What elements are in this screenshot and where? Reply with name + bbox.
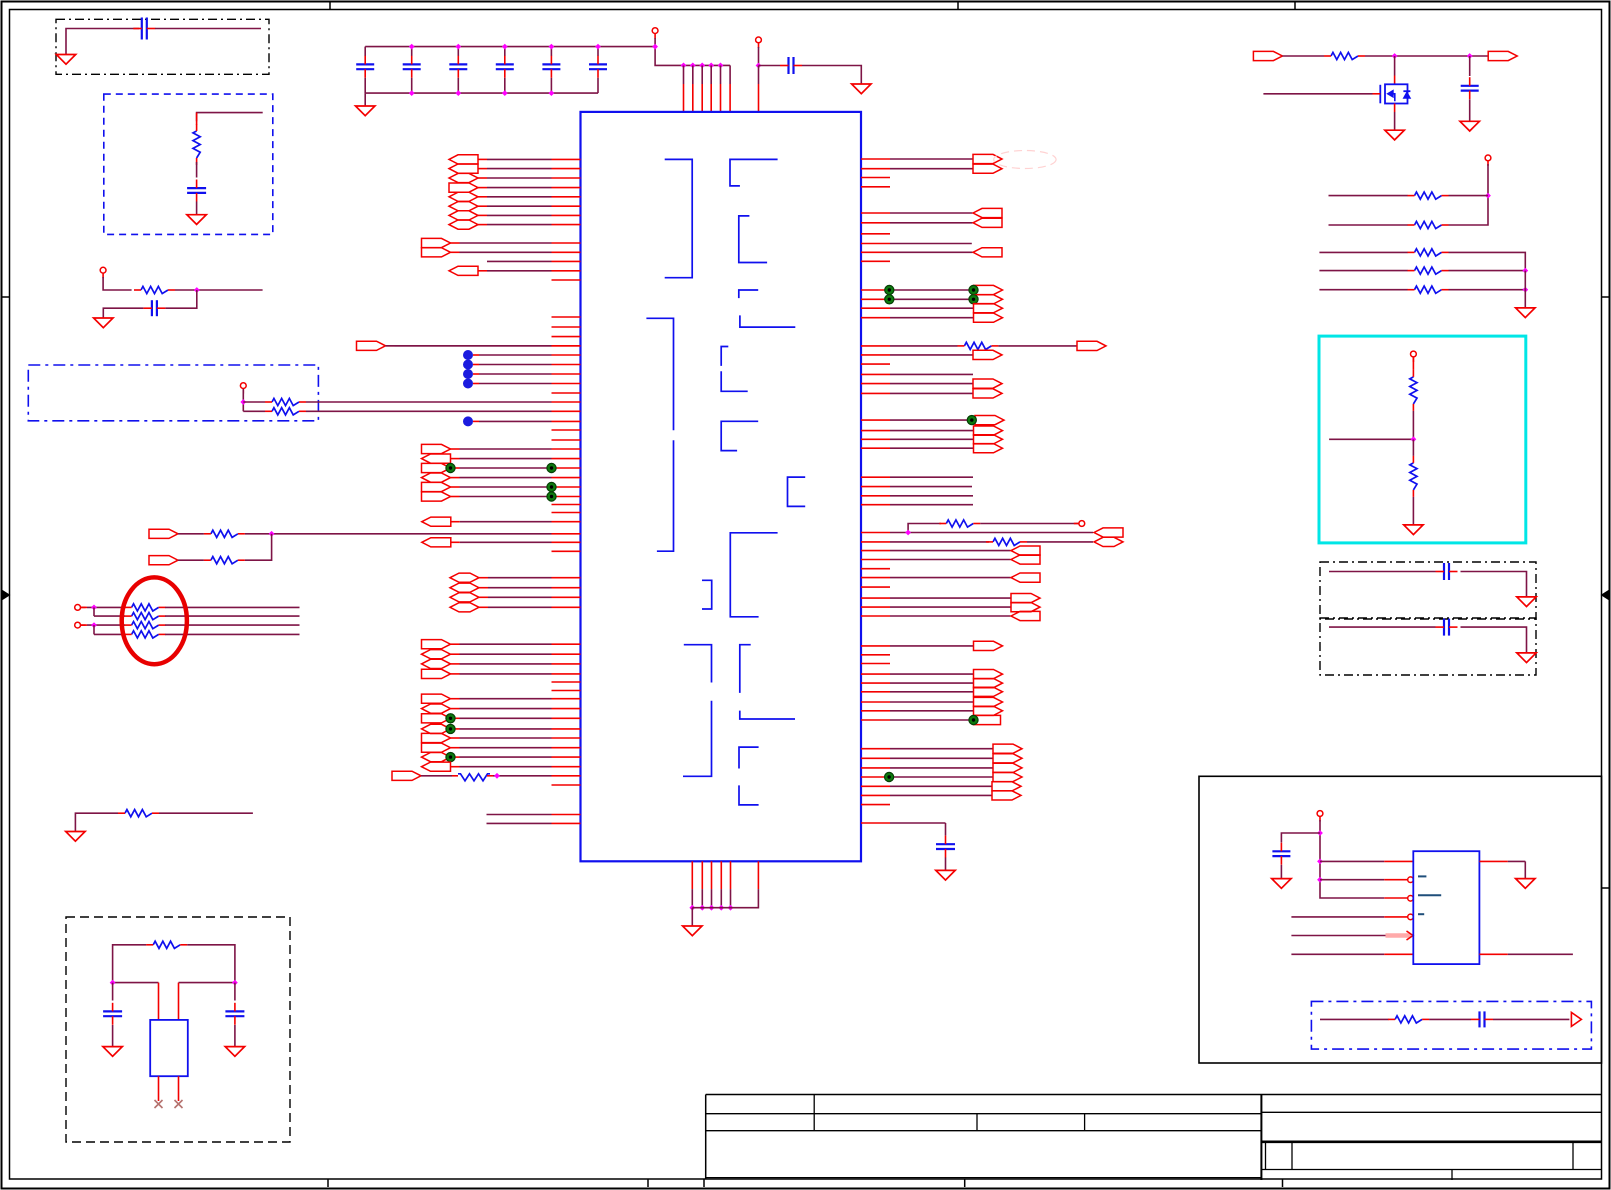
port PWR0	[1253, 51, 1282, 60]
U1 bracket g10	[730, 533, 777, 617]
wire branch C11	[1281, 833, 1320, 843]
wire C1 right	[155, 28, 261, 30]
junction	[549, 44, 555, 50]
junction	[91, 605, 97, 611]
crystal lead 4	[178, 1076, 180, 1101]
wire R15 to term	[980, 523, 1078, 525]
sub-sheet box	[1199, 776, 1602, 1063]
Q1 gate wire	[1263, 93, 1372, 95]
green test point	[885, 295, 894, 304]
wire J0 lead	[421, 775, 452, 777]
ground G5	[852, 84, 871, 94]
junction	[1467, 53, 1473, 59]
terminal TP1	[100, 267, 106, 273]
port T0	[1077, 341, 1106, 350]
U1 bracket g11	[702, 580, 712, 609]
wire TP3 branch right	[759, 65, 781, 67]
port E3	[422, 473, 451, 482]
port Y0	[861, 645, 890, 647]
title block right row line 1	[1261, 1111, 1601, 1113]
pin stub R9	[861, 260, 890, 262]
port F0	[422, 517, 451, 526]
capacitor C11	[1272, 850, 1290, 852]
wire TP1 down	[103, 277, 132, 290]
port Z1	[861, 682, 890, 684]
U1 bracket g15	[739, 747, 759, 768]
highlight ellipse faint	[994, 151, 1056, 169]
port A5	[449, 202, 478, 211]
IC top pin 4	[710, 84, 712, 112]
U1 bracket g5	[740, 315, 795, 327]
frame zone tick top 3	[1294, 2, 1296, 10]
power rail top	[365, 46, 655, 48]
coupling box DB5	[1320, 562, 1536, 619]
wire R21 to node	[1449, 270, 1526, 272]
ground G17	[1272, 879, 1291, 889]
port R4	[861, 212, 890, 214]
net wire R12 out	[159, 812, 253, 814]
ground G9	[225, 1047, 244, 1057]
port AA0	[861, 748, 890, 750]
title block top line	[706, 1094, 1602, 1096]
title block right inner vline 3	[1572, 1142, 1574, 1170]
green test point	[969, 715, 978, 724]
port AA1	[861, 757, 890, 759]
port W3	[861, 559, 890, 561]
frame zone tick bottom 4	[964, 1179, 966, 1187]
green test point	[446, 714, 455, 723]
wire TP5 lead	[81, 606, 87, 608]
port Z4	[861, 710, 890, 712]
ground G6	[683, 926, 702, 936]
port B0	[422, 238, 451, 247]
net wire R7w	[861, 243, 890, 245]
cap bank vertical lower 4	[504, 78, 506, 93]
port I0	[422, 694, 451, 703]
junction	[1485, 193, 1491, 199]
resistor R11	[132, 631, 159, 638]
junction	[728, 905, 734, 911]
wire R25 to C12	[1429, 1018, 1471, 1020]
junction	[690, 63, 696, 69]
title block left edge	[705, 1095, 707, 1180]
wire R20 corner	[1449, 252, 1526, 270]
wire C7 gnd	[945, 858, 947, 871]
title block right bottom tick 2	[1451, 1170, 1453, 1181]
wire left cap drop	[112, 983, 114, 1001]
green test point	[967, 416, 976, 425]
port Z2	[861, 691, 890, 693]
ground G1	[56, 55, 75, 65]
blue node dot	[463, 360, 473, 370]
resistor R22	[1415, 286, 1442, 293]
ground G10	[936, 870, 955, 880]
IC bottom pin 6 corner	[692, 889, 758, 908]
U2 pin2 invert bubble	[1408, 877, 1414, 883]
U2 pin5 clock lead	[1386, 933, 1412, 938]
port S2	[861, 307, 890, 309]
U2 pin label dash 1	[1418, 875, 1426, 877]
wire F2 lead	[178, 559, 204, 561]
port Z3	[861, 701, 890, 703]
terminal TP8	[1485, 155, 1491, 161]
resistor R8	[132, 604, 159, 611]
net wire CC2	[1329, 626, 1436, 628]
config box DB3	[28, 365, 318, 421]
port X0	[861, 597, 890, 599]
wire bluedot 5	[473, 420, 479, 422]
wire TP2 to rail	[655, 38, 730, 65]
IC bottom pin drop 2	[701, 889, 703, 908]
wire R7 to IC	[493, 775, 552, 777]
net wire RT2	[1319, 270, 1407, 272]
U2 pin4 invert bubble	[1408, 914, 1414, 920]
port AA2	[861, 767, 890, 769]
terminal TP5	[75, 605, 81, 611]
blue node dot	[463, 350, 473, 360]
pin stub C2	[552, 336, 581, 338]
wire R17 to J1	[1365, 55, 1470, 57]
port C3	[357, 341, 386, 350]
IC top pin feed 5	[720, 65, 722, 84]
resistor R7	[458, 774, 490, 781]
U1 bracket g6	[646, 318, 673, 551]
junction	[1522, 287, 1528, 293]
title block right inner vline 2	[1291, 1142, 1293, 1170]
terminal TP9	[1411, 351, 1417, 357]
title block center divider	[1260, 1095, 1262, 1181]
resistor R19	[1415, 221, 1442, 228]
port I6	[422, 753, 451, 762]
power rail bottom	[365, 92, 598, 94]
resistor R24	[1410, 463, 1417, 490]
resistor R9	[132, 613, 159, 620]
cap bank vertical 6	[597, 47, 599, 56]
wire X right node	[179, 982, 235, 984]
green test point	[547, 463, 556, 472]
U1 bracket g4	[739, 290, 758, 298]
IC bottom pin 4	[720, 861, 722, 889]
title block right thick line	[1261, 1141, 1601, 1144]
capacitor C12	[1478, 1011, 1480, 1027]
port A1	[449, 164, 478, 173]
open arrow head	[1571, 1012, 1581, 1026]
ground G12	[1460, 121, 1479, 131]
U1 bracket g1	[665, 159, 693, 277]
pin stub D0	[552, 392, 581, 394]
port E4	[422, 482, 451, 491]
frame zone tick top 2	[957, 2, 959, 10]
port W5	[861, 577, 890, 579]
wire R6 up to junction	[245, 534, 272, 560]
wire to R3	[243, 401, 265, 403]
Q1 drain lead	[1394, 76, 1396, 85]
wire C10 corner	[1461, 627, 1527, 653]
junction	[699, 63, 705, 69]
pin stub R6	[861, 233, 890, 235]
capacitor C8	[1461, 85, 1479, 87]
highlight ellipse	[122, 577, 187, 664]
green test point	[446, 724, 455, 733]
title block left bottom line	[706, 1177, 1262, 1179]
title block col line c	[1084, 1114, 1086, 1131]
ground G18	[1516, 879, 1535, 889]
net wire R9 out	[165, 615, 299, 617]
frame zone tick top 1	[329, 2, 331, 10]
blue node dot	[463, 416, 473, 426]
green test point	[885, 285, 894, 294]
net wire R10 out	[165, 624, 299, 626]
port R1	[861, 168, 890, 170]
pin stub D2	[552, 439, 581, 441]
wire TP3 down	[758, 47, 760, 66]
net wire RT1	[1319, 251, 1407, 253]
port R8	[861, 251, 890, 253]
cap bank vertical 5	[550, 47, 552, 56]
junction	[502, 44, 508, 50]
resistor R21	[1415, 267, 1442, 274]
resistor R17	[1331, 52, 1358, 59]
junction	[708, 63, 714, 69]
green test point	[446, 753, 455, 762]
transistor Q1	[1385, 84, 1408, 103]
IC top pin feed 2	[692, 65, 694, 84]
port S0	[861, 289, 890, 291]
resistor R16	[993, 538, 1020, 545]
wire X right up	[187, 945, 235, 983]
frame center arrow left	[3, 591, 10, 600]
capacitor CB6	[589, 63, 607, 65]
wire U2 pin5	[1291, 935, 1385, 937]
port U2	[861, 438, 890, 440]
pin stub R2	[861, 177, 890, 179]
U1 bracket g2	[730, 159, 778, 186]
port W1	[1094, 537, 1123, 546]
net wire V1	[861, 486, 890, 488]
U2 pin label dash 2	[1418, 894, 1441, 896]
port G2	[450, 593, 479, 602]
port F2	[149, 556, 178, 565]
title block col line a	[813, 1095, 815, 1131]
port J0	[392, 771, 421, 780]
pin stub W4	[861, 568, 890, 570]
pin stub AA6	[861, 804, 890, 806]
port A7	[449, 220, 478, 229]
IC bottom pin drop 4	[720, 889, 722, 908]
crystal lead 1	[158, 983, 160, 1020]
blue node dot	[463, 369, 473, 379]
ground G3	[94, 318, 113, 328]
IC top pin 1	[683, 84, 685, 112]
net wire T3	[861, 373, 890, 375]
pin stub C0	[552, 316, 581, 318]
junction	[1411, 436, 1417, 442]
ground G15	[1517, 597, 1536, 607]
comparator U2 body	[1413, 851, 1479, 964]
wire C9 corner	[1461, 572, 1527, 597]
IC top pin 2	[692, 84, 694, 112]
capacitor C9	[1443, 563, 1445, 580]
IC bottom pin drop 5	[730, 889, 732, 908]
wire R5 to IC	[245, 533, 552, 535]
frame zone tick right 1	[1602, 296, 1610, 298]
port T5	[861, 392, 890, 394]
wire divider mid	[1412, 411, 1414, 439]
IC top pin 5	[720, 84, 722, 112]
resistor R25	[1395, 1016, 1422, 1023]
wire R1 to C2	[196, 162, 198, 178]
port E5	[422, 492, 451, 501]
wire C12 to arrow	[1493, 1018, 1569, 1020]
wire U2 pin2	[1320, 879, 1384, 881]
pin stub H4	[552, 681, 581, 683]
wire R16 to flag	[1027, 541, 1093, 543]
resistor R1	[193, 131, 200, 158]
IC bottom pin 1	[691, 861, 693, 889]
cap bank vertical lower 3	[457, 78, 459, 93]
wire U2 pin4	[1291, 916, 1384, 918]
port Z5	[861, 719, 890, 721]
capacitor C1	[141, 18, 143, 40]
net wire R8 out	[165, 606, 299, 608]
junction	[269, 531, 275, 537]
net wire V2	[861, 495, 890, 497]
resistor R10	[132, 622, 159, 629]
port U3	[861, 447, 890, 449]
wire W branch	[908, 524, 941, 533]
port I4	[422, 733, 451, 742]
wire R22 to node	[1449, 289, 1526, 291]
ground G7	[66, 832, 85, 842]
U2 pin3 invert bubble	[1408, 896, 1414, 902]
port G3	[450, 603, 479, 612]
pin stub E7	[552, 512, 581, 514]
junction	[709, 905, 715, 911]
port S3	[861, 317, 890, 319]
ground G2	[187, 215, 206, 225]
junction	[91, 622, 97, 628]
resistor R2	[141, 286, 168, 293]
port E0	[422, 444, 451, 453]
port E2	[422, 463, 451, 472]
capacitor CB1	[356, 63, 374, 65]
wire X left up	[113, 945, 147, 983]
cap bank vertical 3	[457, 47, 459, 56]
cap bank vertical 1	[364, 47, 366, 56]
wire DB2 top	[197, 113, 263, 122]
IC top pin feed 7	[758, 66, 760, 85]
port U1	[861, 430, 890, 432]
IC bottom pin drop 1	[691, 889, 693, 908]
pin stub Y2	[861, 663, 890, 665]
capacitor C4	[787, 57, 789, 74]
junction	[1522, 268, 1528, 274]
net wire B2	[487, 260, 552, 262]
port I3	[422, 724, 451, 733]
junction	[681, 63, 687, 69]
port W2	[861, 550, 890, 552]
port R5	[861, 222, 890, 224]
wire C6 gnd	[234, 1025, 236, 1047]
port A2	[449, 173, 478, 182]
wire gnd stem	[66, 29, 139, 55]
resistor R15	[946, 520, 973, 527]
wire bluedot 3	[473, 383, 479, 385]
port I2	[422, 714, 451, 723]
pin stub E6	[552, 504, 581, 506]
wire TP6 drop	[93, 625, 95, 634]
resistor R12	[125, 810, 152, 817]
port F3	[422, 538, 451, 547]
capacitor C3	[151, 300, 153, 316]
net wire R11 out	[165, 633, 299, 635]
green test point	[885, 772, 894, 781]
wire divider gnd	[1412, 497, 1414, 525]
green test point	[969, 295, 978, 304]
pin stub B4	[552, 279, 581, 281]
IC U1 body	[581, 112, 862, 861]
IC bottom pin 2	[701, 861, 703, 889]
net wire RP2	[1329, 224, 1408, 226]
wire R2 to junction	[175, 289, 263, 291]
U1 bracket g12	[683, 645, 712, 777]
wire right cap drop	[234, 983, 236, 1001]
U2 pin label dash 3	[1418, 913, 1424, 915]
capacitor C7	[936, 843, 955, 845]
output box DB7	[1311, 1001, 1591, 1049]
pin stub Y1	[861, 654, 890, 656]
title block col line b	[976, 1114, 978, 1131]
crystal Y1 body	[150, 1020, 188, 1076]
port E1	[422, 454, 451, 463]
IC top pin feed 3	[701, 65, 703, 84]
pin stub H5	[552, 690, 581, 692]
title block row line A	[706, 1113, 1261, 1115]
net wire V0	[861, 476, 890, 478]
cap bank vertical 2	[411, 47, 413, 56]
ground G16	[1517, 653, 1536, 663]
wire U2 pin3 lead	[1384, 897, 1408, 899]
green test point	[446, 463, 455, 472]
port I5	[422, 743, 451, 752]
crystal lead 2	[178, 983, 180, 1020]
cap bank vertical lower 6	[597, 78, 599, 93]
coupling box DB6	[1320, 618, 1536, 675]
cap bank vertical lower 5	[550, 78, 552, 93]
filter box DB2	[104, 94, 273, 234]
wire U2 pin1	[1320, 860, 1384, 862]
pin lead W1	[861, 541, 890, 543]
wire Q1 drain	[1394, 56, 1396, 76]
wire divider mid2	[1412, 439, 1414, 456]
title block row line B	[706, 1130, 1261, 1132]
cap bank vertical lower 1	[364, 78, 366, 93]
junction	[905, 530, 911, 536]
rail left drop to ground	[364, 93, 366, 106]
junction	[652, 44, 658, 50]
port X1	[861, 606, 890, 608]
port W0	[1094, 528, 1123, 537]
capacitor C2	[187, 187, 206, 189]
wire TP10 down	[1320, 820, 1384, 898]
frame zone tick right 2	[1602, 887, 1610, 889]
IC top pin feed 6	[729, 65, 731, 84]
wire junction down to C3	[165, 290, 196, 308]
wire R3 to IC	[306, 401, 552, 403]
pin stub F4	[552, 550, 581, 552]
wire Q1 source gnd	[1394, 112, 1396, 130]
cap bank vertical 4	[504, 47, 506, 56]
